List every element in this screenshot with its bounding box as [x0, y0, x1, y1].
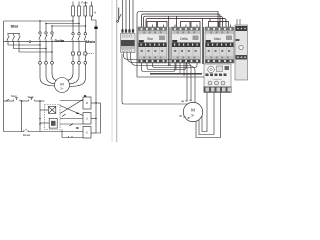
svg-text:M: M [191, 108, 195, 113]
svg-text:N: N [94, 11, 96, 15]
svg-text:Stop: Stop [11, 94, 17, 98]
svg-text:M: M [86, 101, 88, 105]
svg-text:Star: Star [147, 37, 154, 41]
svg-text:S: S [86, 117, 88, 121]
svg-text:3~: 3~ [191, 114, 195, 118]
svg-text:Overload: Overload [213, 78, 223, 81]
svg-text:Fuse: Fuse [82, 1, 89, 5]
svg-text:Star: Star [11, 23, 19, 28]
svg-text:Delta: Delta [55, 38, 66, 43]
svg-text:Delta: Delta [180, 37, 188, 41]
svg-text:3~: 3~ [60, 87, 64, 91]
svg-text:Main: Main [86, 39, 96, 44]
svg-text:Main: Main [214, 37, 221, 41]
svg-text:Start: Start [28, 95, 34, 99]
svg-text:D: D [86, 131, 88, 135]
svg-text:Reset: Reset [23, 133, 31, 137]
